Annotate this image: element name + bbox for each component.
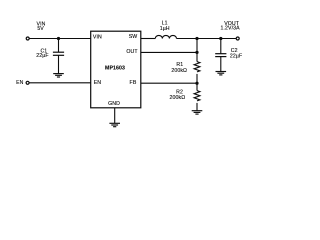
- terminal EN: [26, 81, 29, 84]
- svg-text:SW: SW: [129, 34, 138, 40]
- node FB junction: [195, 82, 198, 85]
- svg-text:200kΩ: 200kΩ: [171, 68, 187, 74]
- svg-text:GND: GND: [108, 101, 120, 107]
- wire C2 top stem: [220, 39, 222, 54]
- wire EN: [29, 82, 90, 84]
- wire VIN rail: [29, 38, 90, 40]
- svg-text:FB: FB: [130, 80, 137, 86]
- node OUT junction: [195, 51, 198, 54]
- wire output rail: [177, 38, 237, 40]
- svg-text:MP1603: MP1603: [105, 65, 125, 71]
- capacitor C1: [53, 52, 64, 55]
- capacitor C2: [215, 54, 226, 57]
- wire OUT stub: [141, 51, 197, 53]
- svg-text:22µF: 22µF: [36, 53, 48, 59]
- svg-text:1.2V/3A: 1.2V/3A: [221, 26, 241, 32]
- wire divider top: [196, 39, 198, 62]
- node L1/FB divider junction: [195, 37, 198, 40]
- inductor L1: [155, 35, 176, 38]
- resistor R1: [194, 62, 200, 72]
- svg-text:VIN: VIN: [93, 35, 102, 41]
- node C2 junction: [219, 37, 222, 40]
- wire R2 bottom stem: [196, 103, 198, 111]
- wire C2 bottom stem: [220, 57, 222, 72]
- terminal VOUT: [236, 37, 239, 40]
- ground IC: [109, 123, 120, 126]
- node VIN/C1 junction: [57, 37, 60, 40]
- resistor R2: [194, 91, 200, 101]
- svg-text:EN: EN: [16, 80, 24, 86]
- ground C1: [53, 74, 64, 77]
- svg-text:EN: EN: [94, 80, 102, 86]
- svg-text:1µH: 1µH: [160, 26, 170, 32]
- svg-text:200kΩ: 200kΩ: [170, 95, 186, 101]
- svg-text:OUT: OUT: [126, 49, 138, 55]
- terminal VIN: [26, 37, 29, 40]
- ground C2: [216, 72, 227, 75]
- wire FB stub: [141, 82, 197, 84]
- wire SW stub: [141, 38, 156, 40]
- wire C1 bottom stem: [58, 56, 60, 74]
- wire GND stem: [114, 108, 116, 123]
- svg-text:5V: 5V: [37, 26, 44, 32]
- svg-text:22µF: 22µF: [230, 53, 242, 59]
- op-amp U1 MP1603 box: [91, 31, 141, 108]
- ground R2: [192, 111, 203, 114]
- wire R1-FB: [196, 74, 198, 91]
- wire C1 top stem: [58, 39, 60, 53]
